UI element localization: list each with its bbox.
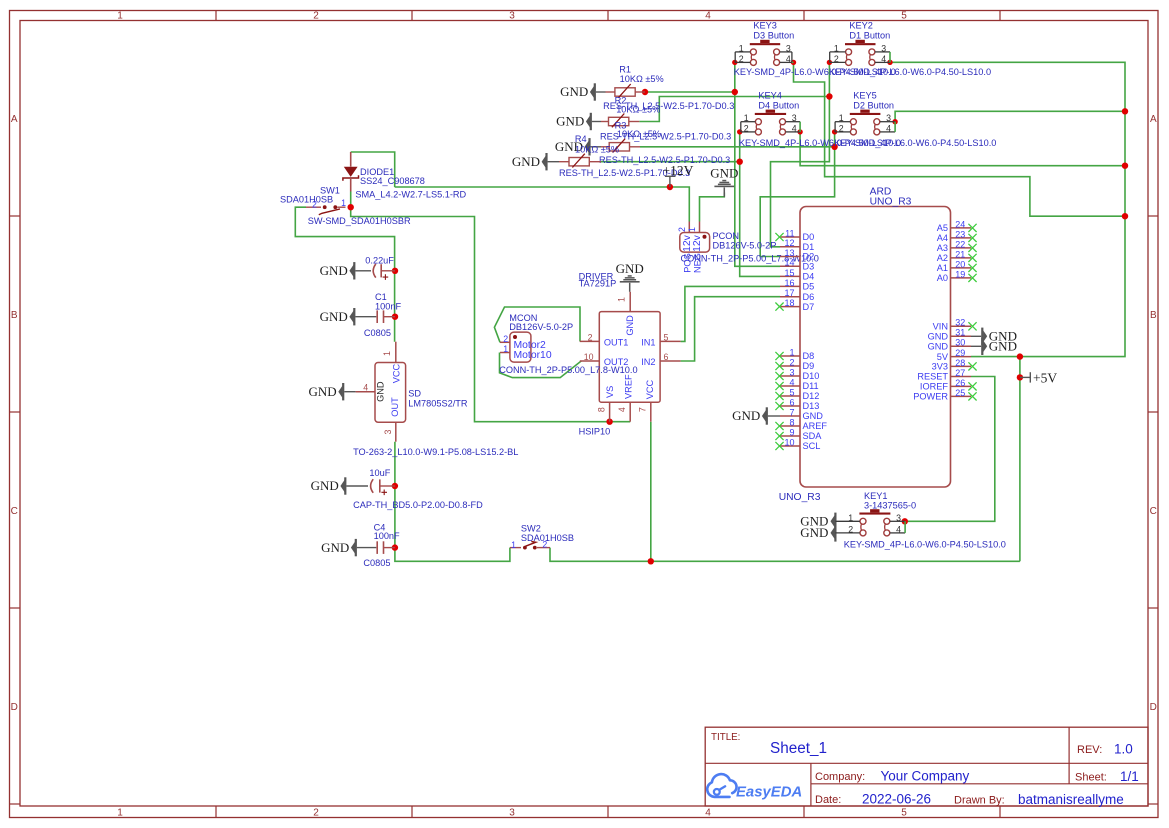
ground (C 0.22uF) [320,262,371,279]
svg-text:D: D [1150,702,1157,713]
svg-text:3: 3 [896,513,901,523]
svg-text:5V: 5V [937,352,949,362]
svg-text:A2: A2 [937,253,948,263]
svg-text:2: 2 [834,54,839,64]
wire R1 to KEY3 column [645,91,735,93]
svg-text:5: 5 [789,387,794,397]
svg-text:17: 17 [784,288,794,298]
svg-text:3-1437565-0: 3-1437565-0 [864,501,916,511]
svg-text:SD: SD [408,389,421,399]
svg-text:18: 18 [784,298,794,308]
svg-text:4: 4 [786,54,791,64]
junction [642,89,648,95]
svg-text:4: 4 [705,808,711,819]
wire +5V branch down to bottom rail [1019,357,1021,562]
resistor R4 [559,134,690,178]
svg-text:3: 3 [383,429,393,434]
svg-text:A0: A0 [937,273,948,283]
svg-text:10KΩ ±5%: 10KΩ ±5% [617,129,661,139]
svg-text:GND: GND [512,154,540,169]
svg-text:100nF: 100nF [375,301,401,311]
svg-text:2: 2 [839,123,844,133]
svg-text:D0: D0 [803,232,815,242]
power +12V flag [663,163,694,187]
ground (driver pin 1) [616,261,644,292]
wire KEY4 pins 3/4 to +5V rail [800,132,1125,166]
wire R3 to KEY5 column [640,146,835,148]
wire MCON pin 1 to driver OUT2 [500,353,582,378]
svg-text:Date:: Date: [815,794,841,806]
svg-text:VIN: VIN [933,322,948,332]
svg-text:GND: GND [321,540,349,555]
junction [648,558,654,564]
svg-text:3: 3 [881,43,886,53]
svg-text:1: 1 [382,351,392,356]
svg-text:2: 2 [503,334,508,344]
svg-text:D5: D5 [803,282,815,292]
wire RESET pin 27 to KEY1 pins 3/4 [905,377,995,522]
ground (C4) [321,539,376,556]
wire driver VCC pin 7 down to bottom rail [650,422,652,562]
svg-text:Motor10: Motor10 [514,350,552,361]
svg-text:A: A [1150,114,1157,125]
svg-text:SDA: SDA [803,431,823,441]
svg-text:OUT: OUT [390,397,400,417]
ground (R2) [556,113,601,130]
svg-text:29: 29 [955,348,965,358]
svg-text:B: B [1150,310,1157,321]
svg-text:UNO_R3: UNO_R3 [779,492,821,503]
svg-text:11: 11 [785,228,794,238]
svg-text:KEY-SMD_4P-L6.0-W6.0-P4.50-LS1: KEY-SMD_4P-L6.0-W6.0-P4.50-LS10.0 [844,540,1006,550]
wire +12V rail to PCON pin 2 [395,187,690,222]
wire diode cathode to SW1 junction [350,192,352,208]
svg-text:D10: D10 [803,371,820,381]
svg-text:CONN-TH_2P-P5.00_L7.8-W10.0: CONN-TH_2P-P5.00_L7.8-W10.0 [681,254,819,264]
ground (R3) [555,138,601,155]
svg-text:REV:: REV: [1077,744,1102,756]
key KEY5 (D2 Button) [834,91,996,148]
svg-text:D6: D6 [803,292,815,302]
svg-text:KEY1: KEY1 [864,491,888,501]
key KEY1 [835,491,1005,550]
svg-text:TO-263-2_L10.0-W9.1-P5.08-LS15: TO-263-2_L10.0-W9.1-P5.08-LS15.2-BL [353,447,518,457]
junction [1122,213,1128,219]
svg-text:2: 2 [677,227,687,232]
svg-text:1: 1 [739,43,744,53]
capacitor 10uF [353,468,483,510]
switch SW1 [280,185,411,226]
svg-text:4: 4 [886,123,891,133]
svg-text:R4: R4 [575,134,587,144]
svg-text:IN2: IN2 [641,357,655,367]
svg-text:1/1: 1/1 [1120,769,1139,784]
junction [737,159,743,165]
ground (regulator pin 4) [309,383,356,400]
svg-text:1: 1 [117,808,123,819]
svg-text:14: 14 [784,258,794,268]
junction [606,419,612,425]
svg-text:26: 26 [955,378,965,388]
svg-text:IOREF: IOREF [920,382,948,392]
svg-text:1: 1 [834,43,839,53]
svg-text:SCL: SCL [803,441,821,451]
svg-text:3: 3 [792,113,797,123]
ground (KEY1 pin 2) [800,524,836,541]
svg-text:5: 5 [664,333,669,343]
svg-text:AREF: AREF [803,421,828,431]
junction [732,89,738,95]
svg-text:1: 1 [848,513,853,523]
svg-text:1: 1 [687,227,697,232]
svg-text:D3 Button: D3 Button [753,31,794,41]
svg-text:D: D [11,702,18,713]
svg-text:13: 13 [784,248,794,258]
ground (KEY1 pin 1) [800,513,836,530]
svg-text:3: 3 [786,43,791,53]
svg-text:D8: D8 [803,351,815,361]
svg-text:GND: GND [309,384,337,399]
svg-text:1: 1 [617,297,627,302]
svg-text:22: 22 [955,239,965,249]
svg-text:1: 1 [789,347,794,357]
svg-text:10KΩ ±5%: 10KΩ ±5% [620,74,664,84]
svg-text:100nF: 100nF [374,531,400,541]
svg-text:KEY3: KEY3 [753,21,777,31]
power +5V flag [1020,370,1057,385]
junction [887,60,892,65]
wire KEY5 pins 1/2 to pin D2 [760,132,834,257]
svg-text:3: 3 [509,10,515,21]
svg-text:+5V: +5V [1033,370,1057,385]
no-connect X marks ARD [775,224,976,450]
svg-text:2: 2 [789,357,794,367]
svg-text:1: 1 [744,113,749,123]
svg-text:D3: D3 [803,262,815,272]
svg-text:C: C [11,506,18,517]
wire KEY2 pins 3/4 to +5V rail and 5V pin 29 [890,62,1125,356]
svg-text:A1: A1 [937,263,948,273]
junction [832,129,837,134]
svg-text:Your Company: Your Company [881,769,970,784]
svg-text:D7: D7 [803,302,815,312]
junction [892,119,897,124]
wire diode top to +12V rail [351,152,395,187]
svg-text:TITLE:: TITLE: [711,732,740,743]
svg-text:27: 27 [955,368,965,378]
svg-text:5: 5 [901,10,907,21]
connector PCON [677,222,819,273]
wire SW1 pin 1 to driver VS/VREF [351,207,631,422]
svg-text:10: 10 [584,352,594,362]
svg-text:OUT1: OUT1 [604,337,629,347]
svg-text:12: 12 [784,238,794,248]
svg-text:+12V: +12V [663,163,694,178]
svg-text:KEY5: KEY5 [853,91,877,101]
svg-text:4: 4 [705,10,711,21]
svg-text:SDA01H0SB: SDA01H0SB [280,195,333,205]
wire KEY3 pins 3/4 to +5V rail [794,62,1126,216]
svg-text:19: 19 [955,269,965,279]
svg-text:1: 1 [117,10,123,21]
svg-text:VCC: VCC [645,380,655,400]
svg-text:2: 2 [848,524,853,534]
svg-text:3: 3 [886,113,891,123]
driver TA7291P [579,272,681,437]
svg-text:Sheet_1: Sheet_1 [770,740,827,757]
ground (PCON pin 1) [710,166,738,197]
svg-text:GND: GND [928,342,949,352]
svg-text:SW-SMD_SDA01H0SBR: SW-SMD_SDA01H0SBR [308,216,411,226]
svg-text:1: 1 [503,344,508,354]
svg-text:DB126V-5.0-2P: DB126V-5.0-2P [509,322,573,332]
svg-text:D1: D1 [803,242,815,252]
junction [392,314,398,320]
svg-text:12v: 12v [692,234,703,252]
svg-text:4: 4 [363,382,368,392]
svg-text:3V3: 3V3 [932,362,948,372]
key KEY3 (D3 Button) [734,21,896,77]
svg-text:10: 10 [784,437,794,447]
wire KEY3 pins 1/2 to pin D3 [735,62,780,266]
svg-text:8: 8 [596,407,606,412]
svg-text:10KΩ ±5%: 10KΩ ±5% [575,144,619,154]
svg-text:SS24_C908678: SS24_C908678 [360,176,425,186]
svg-text:6: 6 [789,397,794,407]
wire KEY5 pins 3/4 to +5V rail [895,111,1125,121]
svg-text:C: C [1150,506,1157,517]
svg-text:10KΩ ±5%: 10KΩ ±5% [616,105,660,115]
svg-text:EasyEDA: EasyEDA [736,785,802,801]
svg-text:D2: D2 [803,252,815,262]
regulator SD LM7805S2/TR [353,342,518,457]
junction [667,184,673,190]
svg-text:SDA01H0SB: SDA01H0SB [521,533,574,543]
junction [392,268,398,274]
junction [1017,353,1023,359]
resistor R2 [600,96,731,142]
key KEY4 (D4 Button) [739,91,901,148]
svg-text:4: 4 [896,524,901,534]
svg-text:VS: VS [605,386,615,398]
svg-text:2022-06-26: 2022-06-26 [862,791,931,806]
svg-text:3: 3 [509,808,515,819]
svg-text:batmanisreallyme: batmanisreallyme [1018,792,1124,807]
svg-text:D4: D4 [803,272,815,282]
svg-text:32: 32 [955,318,965,328]
svg-text:GND: GND [311,478,339,493]
svg-text:A: A [11,114,18,125]
capacitor 0.22uF [365,256,395,280]
wire R2 to KEY2 column [639,97,829,122]
svg-text:23: 23 [955,229,965,239]
svg-text:GND: GND [375,381,385,402]
junction [1122,163,1128,169]
ground (ARD pin 30) [971,338,1017,355]
svg-text:GND: GND [556,114,584,129]
svg-text:25: 25 [955,388,965,398]
svg-text:9: 9 [789,427,794,437]
resistor R1 [603,64,734,111]
svg-text:2: 2 [744,123,749,133]
svg-text:1: 1 [839,113,844,123]
svg-text:GND: GND [320,263,348,278]
svg-text:2: 2 [739,54,744,64]
svg-text:TA7291P: TA7291P [579,279,617,289]
junction [902,518,908,524]
key KEY2 (D1 Button) [829,21,991,77]
wire SW1 pin 2 to regulator VCC input [295,207,394,342]
svg-text:Sheet:: Sheet: [1075,772,1107,784]
svg-text:GND: GND [800,525,828,540]
svg-text:4: 4 [881,54,886,64]
svg-text:2: 2 [588,333,593,343]
wire PCON pin 1 to GND [700,193,725,222]
svg-text:D11: D11 [803,381,819,391]
svg-text:GND: GND [625,315,635,336]
capacitor C4 [363,522,400,568]
svg-text:KEY-SMD_4P-L6.0-W6.0-P4.50-LS1: KEY-SMD_4P-L6.0-W6.0-P4.50-LS10.0 [829,67,991,77]
svg-text:16: 16 [784,278,794,288]
svg-text:4: 4 [617,407,627,412]
svg-text:7: 7 [789,407,794,417]
ground (ARD pin 7) [732,407,780,424]
svg-text:8: 8 [789,417,794,427]
svg-text:LM7805S2/TR: LM7805S2/TR [408,398,468,408]
ground (R1) [560,83,605,100]
svg-text:D12: D12 [803,391,820,401]
svg-text:A5: A5 [937,223,948,233]
svg-text:CONN-TH_2P-P5.00_L7.8-W10.0: CONN-TH_2P-P5.00_L7.8-W10.0 [499,365,637,375]
svg-text:KEY4: KEY4 [758,91,782,101]
svg-text:VCC: VCC [392,364,402,384]
svg-text:31: 31 [955,328,965,338]
resistor R3 [599,120,730,165]
svg-text:GND: GND [560,84,588,99]
svg-text:DB126V-5.0-2P: DB126V-5.0-2P [713,241,777,251]
ground (C 10uF) [311,477,368,494]
wire KEY4 pins 1/2 to pin D4 [740,132,780,277]
svg-text:HSIP10: HSIP10 [579,426,611,436]
svg-text:VREF: VREF [623,374,633,399]
svg-text:GND: GND [320,309,348,324]
svg-text:Drawn By:: Drawn By: [954,794,1005,806]
wire R4 to KEY4 column [601,161,740,163]
svg-text:20: 20 [955,259,965,269]
svg-text:6: 6 [664,352,669,362]
svg-text:7: 7 [638,407,648,412]
svg-text:28: 28 [955,358,965,368]
junction [797,129,802,134]
junction [831,144,837,150]
svg-text:1.0: 1.0 [1114,742,1133,757]
svg-text:21: 21 [955,249,965,259]
wire pin D5 to driver IN1 [681,286,780,341]
svg-text:KEY-SMD_4P-L6.0-W6.0-P4.50-LS1: KEY-SMD_4P-L6.0-W6.0-P4.50-LS10.0 [834,138,996,148]
switch SW2 [510,524,574,550]
svg-text:GND: GND [710,166,738,181]
ground (ARD pin 31) [971,328,1017,345]
wire MCON pin 2 to driver OUT1 [494,307,580,342]
ground (C1) [320,308,377,325]
svg-text:30: 30 [955,338,965,348]
svg-text:KEY2: KEY2 [849,21,873,31]
svg-text:A4: A4 [937,233,948,243]
svg-text:3: 3 [789,367,794,377]
svg-text:C0805: C0805 [363,558,390,568]
svg-text:D1 Button: D1 Button [849,31,890,41]
svg-text:UNO_R3: UNO_R3 [870,196,912,207]
svg-text:15: 15 [784,268,794,278]
svg-text:D4 Button: D4 Button [758,100,799,110]
svg-text:C1: C1 [375,292,387,302]
junction [737,129,742,134]
svg-text:2: 2 [313,10,319,21]
svg-text:B: B [11,310,18,321]
junction [732,60,737,65]
svg-text:D2 Button: D2 Button [853,100,894,110]
svg-text:0.22uF: 0.22uF [365,256,394,266]
IC ARD UNO_R3 [779,187,971,504]
junction [826,93,832,99]
svg-text:1: 1 [341,198,346,208]
junction [392,483,398,489]
wire SW2 pin 1 to regulator output [395,442,510,562]
junction [1122,108,1128,114]
svg-text:GND: GND [616,261,644,276]
svg-text:4: 4 [792,123,797,133]
svg-text:GND: GND [928,332,949,342]
ground (R4) [512,153,559,170]
junction [348,204,354,210]
junction [791,60,796,65]
svg-text:Company:: Company: [815,771,865,783]
connector MCON [499,313,637,375]
svg-text:GND: GND [732,408,760,423]
svg-text:5: 5 [901,808,907,819]
svg-text:A3: A3 [937,243,948,253]
junction [392,544,398,550]
svg-text:SMA_L4.2-W2.7-LS5.1-RD: SMA_L4.2-W2.7-LS5.1-RD [355,189,466,199]
svg-text:1: 1 [511,540,516,550]
wire bottom +5V rail to SW2 pin 2 [550,548,1020,562]
svg-text:RESET: RESET [917,372,948,382]
svg-text:4: 4 [789,377,794,387]
svg-text:D9: D9 [803,361,815,371]
svg-text:10uF: 10uF [369,468,390,478]
wire pin D6 to driver IN2 [681,297,780,361]
svg-text:POWER: POWER [913,392,948,402]
junction [827,60,832,65]
svg-text:CAP-TH_BD5.0-P2.00-D0.8-FD: CAP-TH_BD5.0-P2.00-D0.8-FD [353,500,483,510]
svg-text:D13: D13 [803,401,820,411]
capacitor C1 [364,292,402,338]
junction [1017,374,1023,380]
diode DIODE1 [343,152,467,199]
svg-text:IN1: IN1 [641,337,655,347]
svg-text:GND: GND [803,411,824,421]
svg-text:2: 2 [313,808,319,819]
svg-text:C0805: C0805 [364,328,391,338]
svg-text:24: 24 [955,219,965,229]
wire KEY2 pins 1/2 to pin D1 [771,62,830,246]
svg-text:GND: GND [989,339,1017,354]
